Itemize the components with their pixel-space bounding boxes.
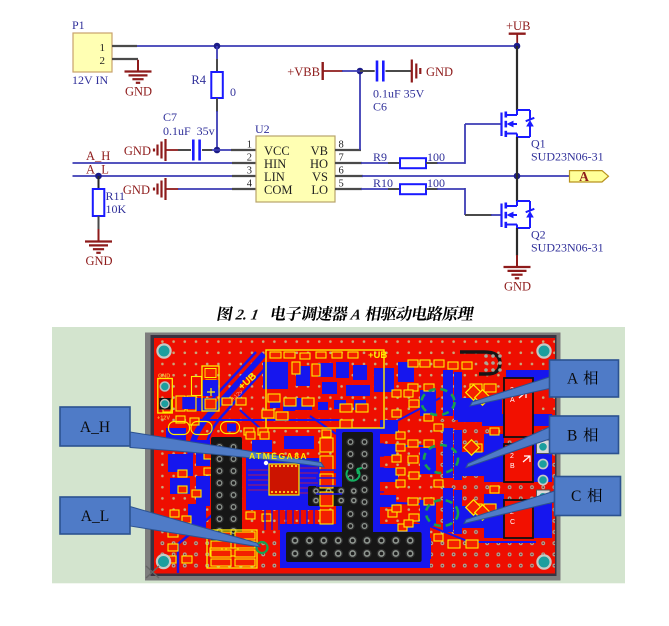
callout C phase: [464, 477, 621, 524]
svg-text:0.1uF 35V: 0.1uF 35V: [373, 87, 425, 101]
right edge pads column: [537, 440, 551, 454]
svg-text:GND: GND: [123, 183, 150, 197]
svg-text:GND: GND: [85, 254, 112, 268]
wire VBB to junction: [342, 70, 360, 72]
header J2 right dual-row: [342, 432, 373, 536]
wire Q1 source to A node: [516, 137, 518, 176]
extra pads column mid-right: [392, 390, 401, 397]
wire R4 lower: [216, 98, 218, 112]
power port GND at COM: [123, 178, 179, 200]
svg-text:2: 2: [247, 153, 252, 164]
svg-text:R10: R10: [373, 176, 393, 190]
svg-text:B: B: [567, 428, 577, 445]
svg-text:A_L: A_L: [81, 508, 109, 525]
svg-text:6: 6: [339, 166, 344, 177]
svg-text:12V IN: 12V IN: [72, 73, 108, 87]
header J4 small: [308, 486, 360, 506]
wire A_H: [73, 162, 234, 164]
copper: left cluster: [166, 428, 186, 442]
svg-text:10K: 10K: [106, 202, 127, 216]
power port +UB: [506, 19, 530, 46]
callout A phase: [470, 360, 619, 406]
mounting hole top-right: [537, 344, 550, 357]
svg-text:+UB: +UB: [506, 19, 530, 33]
svg-text:LIN: LIN: [264, 170, 285, 184]
highlight ellipse phase C driver: [426, 500, 458, 526]
op-amp driver U2: [247, 122, 344, 202]
svg-text:2. 1: 2. 1: [234, 308, 260, 324]
svg-text:ATMEGA8A: ATMEGA8A: [249, 451, 308, 461]
node junction phase A: [514, 173, 521, 180]
svg-text:0.1uF 35v: 0.1uF 35v: [163, 124, 215, 138]
highlight ellipse phase A driver: [422, 389, 455, 415]
pin 3 stub: [232, 175, 256, 177]
wire R4 upper: [216, 46, 218, 60]
svg-text:2: 2: [100, 55, 106, 67]
mounting hole bottom-left: [157, 555, 170, 568]
wire LO to R10: [361, 188, 389, 190]
corner cross mark: [146, 566, 159, 578]
yellow bottom-left connector grid: [207, 530, 257, 568]
svg-text:7: 7: [339, 153, 344, 164]
svg-text:SUD23N06-31: SUD23N06-31: [531, 150, 604, 164]
svg-text:COM: COM: [264, 183, 292, 197]
MCU chip body: [246, 458, 320, 510]
small component left of C15: [192, 377, 202, 396]
ground GND under P1: [125, 60, 153, 99]
copper: center region around MCU: [250, 466, 316, 508]
svg-text:HO: HO: [310, 157, 328, 171]
axial stadium components: [169, 422, 190, 435]
ground GND under Q2: [504, 267, 532, 294]
pin 2 stub: [232, 162, 256, 164]
wire VB riser: [359, 71, 361, 150]
pin 4 stub: [232, 188, 256, 190]
svg-text:8: 8: [339, 140, 344, 151]
power port +VBB: [287, 62, 343, 80]
svg-text:HIN: HIN: [264, 157, 286, 171]
dark hook trace top right: [460, 352, 500, 374]
wire A_L: [73, 175, 234, 177]
svg-text:R9: R9: [373, 150, 387, 164]
svg-text:100: 100: [427, 176, 445, 190]
callout B phase: [466, 416, 619, 468]
wire R11 bottom: [98, 216, 100, 230]
right red plates with markings: [504, 378, 533, 437]
svg-text:A_H: A_H: [86, 149, 110, 163]
wire R11 top: [98, 176, 100, 190]
callout A_H: [60, 407, 324, 467]
svg-text:5: 5: [339, 179, 344, 190]
svg-text:VCC: VCC: [264, 144, 290, 158]
pin 1 stub: [231, 149, 256, 151]
silkscreen: rotated diamonds: [464, 385, 491, 521]
svg-text:GND: GND: [426, 65, 453, 79]
connector P1: [72, 18, 112, 87]
power port GND at C7: [124, 139, 179, 161]
svg-text:4: 4: [247, 179, 253, 190]
copper: scattered traces: [166, 398, 536, 558]
wire R10 to Q2 gate: [426, 188, 438, 190]
svg-text:B: B: [510, 463, 515, 470]
wire top rail 12V: [137, 45, 517, 47]
yellow column between MCU and right header: [320, 438, 333, 452]
mounting hole bottom-right: [537, 555, 550, 568]
svg-text:GND: GND: [124, 144, 151, 158]
svg-text:P1: P1: [72, 18, 85, 32]
svg-text:SUD23N06-31: SUD23N06-31: [531, 241, 604, 255]
resistor R11: [93, 189, 127, 216]
svg-text:A: A: [510, 397, 515, 404]
svg-text:Q2: Q2: [531, 228, 546, 242]
svg-text:A: A: [579, 169, 589, 184]
green arrow mark on header: [347, 468, 362, 481]
small green highlight circle A_L target: [257, 542, 268, 553]
svg-text:A: A: [567, 371, 579, 388]
wire R9 to Q1 gate: [426, 162, 438, 164]
header J3 bottom dual-row: [286, 532, 422, 562]
silkscreen: big yellow outline box power section: [266, 350, 384, 428]
svg-text:C7: C7: [163, 110, 177, 124]
svg-text:+UB: +UB: [368, 350, 387, 361]
capacitor C6: [360, 61, 425, 114]
ground GND under R11: [85, 242, 113, 269]
pin 5 stub: [335, 188, 362, 190]
caption figure 2.1: [217, 306, 475, 324]
transistor Q1: [502, 110, 604, 164]
resistor R4: [191, 72, 236, 99]
svg-text:+VBB: +VBB: [287, 65, 320, 79]
svg-text:R4: R4: [191, 73, 206, 87]
cap C15 component: [202, 366, 219, 411]
PCB figure: pale green backdrop: [52, 327, 625, 583]
silkscreen: small yellow pad outlines: [163, 352, 499, 563]
resistor R10: [373, 176, 445, 194]
chip pin fan traces to bottom header: [265, 444, 384, 530]
wire A node to Q2 drain: [516, 176, 518, 202]
svg-text:A_H: A_H: [80, 419, 110, 436]
copper: top-left diagonal traces: [178, 352, 271, 573]
port A output flag: [570, 169, 609, 184]
wire C7 to U2 pin1: [212, 149, 232, 151]
svg-text:Q1: Q1: [531, 137, 546, 151]
resistor R9: [373, 150, 445, 168]
pin 7 stub: [335, 162, 362, 164]
node junction R4/top rail: [214, 43, 221, 50]
svg-text:VB: VB: [311, 144, 328, 158]
svg-text:3: 3: [247, 166, 252, 177]
svg-text:GND: GND: [158, 374, 170, 380]
node junction VBB/C6: [357, 68, 364, 75]
svg-text:LO: LO: [311, 183, 328, 197]
wire VS / phase A: [362, 175, 570, 177]
svg-text:U2: U2: [255, 122, 270, 136]
copper: top middle rects: [263, 362, 288, 389]
node junction C7: [214, 147, 221, 154]
pin 8 stub: [335, 149, 361, 151]
highlight ellipse phase B driver: [424, 445, 458, 473]
svg-text:100: 100: [427, 150, 445, 164]
svg-text:GND: GND: [125, 85, 152, 99]
svg-text:+12V: +12V: [157, 416, 170, 422]
bottom strip bigger vias: [154, 538, 555, 574]
svg-text:GND: GND: [504, 280, 531, 294]
mounting hole top-left: [157, 344, 170, 357]
wire Q1 drain: [516, 46, 518, 111]
node junction +UB: [514, 43, 521, 50]
svg-text:VS: VS: [312, 170, 328, 184]
PCB board gray frame: [145, 333, 561, 581]
svg-text:A: A: [349, 308, 363, 324]
power port GND at C6: [412, 60, 453, 83]
copper: right phase sections: [398, 362, 414, 382]
svg-text:C6: C6: [373, 100, 387, 114]
header J1 left dual-row: [211, 437, 242, 541]
node junction R11: [95, 173, 102, 180]
svg-text:1: 1: [100, 42, 106, 54]
callout A_L: [60, 497, 260, 547]
capacitor C7: [163, 110, 215, 161]
svg-text:2: 2: [510, 453, 514, 460]
pin stub P1-2: [112, 58, 138, 60]
svg-text:0: 0: [230, 85, 236, 99]
pin 6 stub: [335, 175, 363, 177]
svg-text:C: C: [510, 519, 515, 526]
wire HO to R9: [361, 162, 389, 164]
silkscreen: left connector outline + labels: [158, 379, 173, 414]
wire GND to COM: [178, 188, 233, 190]
pin stub P1-1: [112, 45, 137, 47]
svg-text:C: C: [571, 488, 581, 505]
svg-text:1: 1: [247, 140, 252, 151]
wire Q2 source: [516, 228, 518, 256]
transistor Q2: [502, 201, 604, 255]
